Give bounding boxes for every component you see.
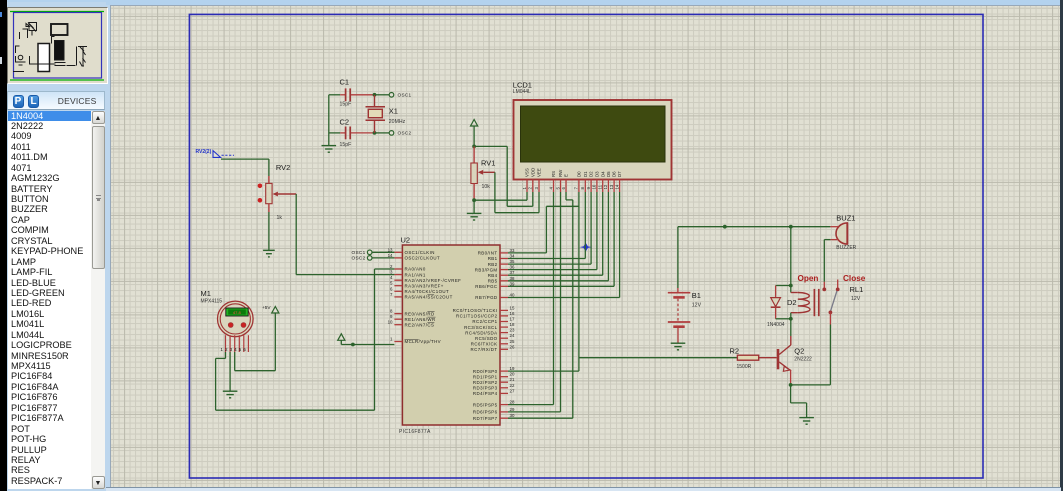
- svg-text:20MHz: 20MHz: [389, 119, 406, 125]
- svg-text:30: 30: [510, 413, 515, 418]
- svg-text:RE1/AN6/WR: RE1/AN6/WR: [405, 317, 436, 322]
- terminal OSC1 (U2): [352, 250, 395, 255]
- svg-text:RC6/TX/CK: RC6/TX/CK: [471, 342, 498, 347]
- wire LCD VSS: [526, 192, 528, 200]
- svg-text:9: 9: [390, 314, 393, 319]
- svg-text:13: 13: [388, 247, 393, 252]
- svg-text:RA5/AN4/SS/C2OUT: RA5/AN4/SS/C2OUT: [405, 295, 453, 300]
- wire emitter to ground: [791, 385, 807, 417]
- svg-text:LM044L: LM044L: [513, 89, 531, 95]
- node rail junction B: [789, 225, 793, 229]
- node emitter junction: [789, 383, 793, 387]
- potentiometer RV2: [258, 163, 297, 221]
- svg-text:RE2/AN7/CS: RE2/AN7/CS: [405, 322, 435, 327]
- ground (RV2): [263, 250, 275, 257]
- svg-text:VEE: VEE: [537, 168, 542, 177]
- wire OSC1 net: [329, 94, 389, 96]
- LCD LM044L body: [514, 100, 672, 180]
- wire RV1 bottom to LCD VSS: [474, 199, 527, 201]
- svg-text:RW: RW: [558, 169, 563, 177]
- LCD pins: [522, 168, 622, 192]
- svg-text:RD3/PSP3: RD3/PSP3: [473, 386, 498, 391]
- svg-text:RB2: RB2: [488, 262, 498, 267]
- wire RV2 top: [221, 159, 269, 183]
- device list: [8, 111, 91, 490]
- svg-text:RC4/SDI/SDA: RC4/SDI/SDA: [465, 330, 497, 335]
- svg-text:6: 6: [561, 187, 566, 190]
- svg-text:3: 3: [390, 270, 393, 275]
- svg-text:D7: D7: [617, 171, 622, 177]
- svg-text:RC0/T1OSO/T1CKI: RC0/T1OSO/T1CKI: [453, 308, 498, 313]
- svg-text:1N4004: 1N4004: [767, 322, 785, 328]
- wire LCD D1 to RB1: [508, 192, 585, 259]
- svg-text:U2: U2: [401, 236, 411, 245]
- svg-text:RA0/AN0: RA0/AN0: [405, 267, 426, 272]
- svg-text:2: 2: [528, 187, 533, 190]
- svg-text:Close: Close: [843, 274, 866, 283]
- svg-text:10: 10: [388, 320, 393, 325]
- svg-text:RD5/PSP5: RD5/PSP5: [473, 402, 498, 407]
- node rail junction A: [723, 225, 727, 229]
- svg-text:1k: 1k: [277, 215, 283, 221]
- svg-text:RD6/PSP6: RD6/PSP6: [473, 410, 498, 415]
- svg-text:15pF: 15pF: [340, 102, 352, 108]
- sheet border: [189, 14, 983, 478]
- svg-text:4: 4: [234, 347, 237, 352]
- wire LCD VDD: [532, 192, 534, 206]
- op-amp U2 body (PIC16F877A): [399, 236, 500, 436]
- wire RD0 to R2: [579, 357, 738, 359]
- svg-text:5: 5: [555, 187, 560, 190]
- LCD screen: [521, 106, 666, 162]
- svg-text:RE0/AN5/RD: RE0/AN5/RD: [405, 311, 435, 316]
- svg-text:16: 16: [510, 311, 515, 316]
- wire RV1 wiper to LCD VEE: [495, 172, 535, 212]
- svg-text:RD7/PSP7: RD7/PSP7: [473, 416, 498, 421]
- svg-text:1: 1: [390, 337, 393, 342]
- preview sheet border: [14, 13, 102, 79]
- svg-text:10: 10: [592, 184, 597, 189]
- wire LCD D0 to RD0: [508, 192, 579, 371]
- svg-text:23: 23: [510, 328, 515, 333]
- wire coil bottom link: [776, 313, 791, 336]
- svg-text:BUZZER: BUZZER: [836, 245, 856, 251]
- svg-text:12: 12: [603, 184, 608, 189]
- wire coil top link: [776, 286, 798, 293]
- svg-text:M1: M1: [201, 289, 211, 298]
- wire LCD RW to RD6: [508, 192, 561, 412]
- svg-text:RD2/PSP2: RD2/PSP2: [473, 380, 498, 385]
- svg-text:14: 14: [388, 253, 393, 258]
- svg-text:24: 24: [510, 333, 515, 338]
- svg-text:OSC2: OSC2: [398, 131, 412, 136]
- node OSC1 junction: [373, 93, 377, 97]
- svg-text:14: 14: [614, 184, 619, 189]
- svg-text:RC7/RX/DT: RC7/RX/DT: [471, 347, 498, 352]
- svg-text:D3: D3: [595, 171, 600, 177]
- wire M1 out to RA0: [216, 269, 395, 410]
- svg-text:2N2222: 2N2222: [794, 356, 812, 362]
- svg-text:D2: D2: [787, 298, 797, 307]
- svg-text:VDD: VDD: [530, 168, 535, 177]
- window left edge: [0, 0, 7, 491]
- U2 left pins: [388, 247, 462, 344]
- M1 pins 1-6: [221, 335, 249, 352]
- buzzer BUZ1: [830, 214, 856, 251]
- svg-text:Open: Open: [798, 274, 819, 283]
- svg-text:28: 28: [510, 400, 515, 405]
- power arrow (MCLR): [338, 334, 345, 341]
- svg-text:37: 37: [510, 270, 515, 275]
- svg-text:11: 11: [598, 184, 603, 189]
- svg-text:5: 5: [239, 347, 242, 352]
- svg-text:21: 21: [510, 377, 515, 382]
- power +5V arrow (RV1): [471, 120, 478, 127]
- svg-text:38: 38: [510, 276, 515, 281]
- svg-text:6: 6: [390, 286, 393, 291]
- svg-text:RD4/PSP4: RD4/PSP4: [473, 391, 498, 396]
- svg-text:+5V: +5V: [262, 305, 271, 310]
- ground (B1): [671, 343, 686, 350]
- svg-text:C2: C2: [340, 118, 350, 127]
- relay switch arm: [830, 291, 837, 312]
- terminal OSC2: [389, 131, 411, 136]
- svg-text:2: 2: [225, 347, 228, 352]
- potentiometer RV1: [471, 146, 496, 200]
- svg-text:12V: 12V: [692, 303, 702, 309]
- svg-text:MCLR/Vpp/THV: MCLR/Vpp/THV: [405, 339, 442, 344]
- relay pivot: [829, 311, 833, 325]
- svg-text:D1: D1: [583, 171, 588, 177]
- svg-text:26: 26: [510, 344, 515, 349]
- wire RB0 link: [508, 206, 579, 253]
- node coil bottom junction: [789, 317, 793, 321]
- svg-text:RB0/INT: RB0/INT: [478, 251, 498, 256]
- node OSC2 junction: [373, 131, 377, 135]
- svg-text:12V: 12V: [851, 296, 861, 302]
- wire LCD D7 to RB7: [508, 192, 620, 298]
- node RV1 top junction: [472, 145, 476, 149]
- crystal X1: [366, 95, 406, 133]
- svg-text:25: 25: [510, 339, 515, 344]
- svg-text:RD0/PSP0: RD0/PSP0: [473, 369, 498, 374]
- svg-text:RL1: RL1: [850, 285, 864, 294]
- svg-text:Q2: Q2: [794, 347, 804, 356]
- svg-text:OSC1/CLKIN: OSC1/CLKIN: [405, 250, 435, 255]
- resistor R2: [730, 347, 759, 371]
- sensor M1 MPX4115: [201, 289, 254, 337]
- wire relay common to emitter: [791, 325, 831, 385]
- wire RV1 top: [473, 126, 475, 146]
- relay RL1 coil: [791, 293, 810, 313]
- svg-text:4: 4: [548, 187, 553, 190]
- svg-text:35: 35: [510, 259, 515, 264]
- wire RV2 bottom: [268, 204, 270, 250]
- svg-text:RD1/PSP1: RD1/PSP1: [473, 374, 498, 379]
- net label RV2(2): [196, 149, 235, 157]
- wire buzzer to relay contact: [824, 240, 830, 282]
- scrollbar: [91, 111, 105, 490]
- capacitor C2: [340, 118, 352, 148]
- top window strip: [7, 0, 1061, 5]
- svg-text:E: E: [564, 174, 569, 177]
- svg-text:5: 5: [390, 281, 393, 286]
- wire +5V to LCD VDD: [474, 146, 529, 206]
- svg-text:RC1/T1OSI/CCP2: RC1/T1OSI/CCP2: [456, 314, 498, 319]
- preview pane: [7, 7, 108, 84]
- relay contact open: [822, 282, 826, 292]
- svg-text:36: 36: [510, 265, 515, 270]
- svg-text:15pF: 15pF: [340, 142, 352, 148]
- svg-text:RB7/PGD: RB7/PGD: [475, 295, 497, 300]
- svg-text:6: 6: [243, 347, 246, 352]
- power +5V arrow (M1): [262, 305, 279, 313]
- preview mini schematic: [13, 23, 87, 72]
- wire LCD D4 to RB4: [508, 192, 603, 275]
- svg-text:8: 8: [580, 187, 585, 190]
- capacitor C1: [340, 78, 352, 108]
- relay RL1 core: [814, 289, 818, 316]
- svg-text:3: 3: [230, 347, 233, 352]
- svg-text:7: 7: [390, 292, 393, 297]
- wire rail to coil top: [790, 227, 792, 286]
- node MCLR junction: [351, 343, 355, 347]
- wire M1 Vs to +5V: [235, 313, 276, 371]
- transistor Q2: [778, 336, 812, 385]
- preview green margin lines: [10, 11, 104, 13]
- svg-text:8: 8: [390, 309, 393, 314]
- svg-text:RV2(2): RV2(2): [196, 149, 212, 155]
- wire RV1 bottom to ground: [473, 200, 475, 213]
- diode D2: [767, 286, 797, 328]
- svg-text:RB1: RB1: [488, 256, 498, 261]
- svg-text:1: 1: [522, 187, 527, 190]
- wire LCD D6 to RB6: [508, 192, 614, 286]
- svg-text:D0: D0: [577, 171, 582, 177]
- svg-text:27: 27: [510, 388, 515, 393]
- svg-text:18: 18: [510, 322, 515, 327]
- svg-text:7: 7: [574, 187, 579, 190]
- wire RV2 wiper to RA1: [296, 194, 394, 275]
- ground (crystal): [322, 146, 337, 153]
- svg-text:OSC1: OSC1: [352, 250, 366, 255]
- svg-text:RC3/SCK/SCL: RC3/SCK/SCL: [464, 325, 498, 330]
- svg-text:40: 40: [510, 293, 515, 298]
- svg-text:1500R: 1500R: [737, 364, 752, 370]
- svg-text:9: 9: [586, 187, 591, 190]
- left panel: [7, 2, 106, 491]
- svg-text:RC2/CCP1: RC2/CCP1: [472, 319, 497, 324]
- svg-text:B1: B1: [692, 291, 701, 300]
- svg-text:D2: D2: [589, 171, 594, 177]
- relay contact close: [836, 280, 840, 292]
- svg-text:3: 3: [534, 187, 539, 190]
- P/L buttons + DEVICES header: [7, 91, 105, 110]
- wire OSC2 net: [329, 132, 389, 134]
- svg-text:RB6/PGC: RB6/PGC: [475, 284, 497, 289]
- wire +12V rail: [678, 227, 831, 288]
- terminal OSC1: [389, 93, 411, 98]
- wire LCD D5 to RB5: [508, 192, 608, 281]
- svg-text:33: 33: [510, 248, 515, 253]
- svg-text:RV1: RV1: [481, 159, 495, 168]
- svg-text:D6: D6: [612, 171, 617, 177]
- wire LCD D3 to RB3: [508, 192, 597, 270]
- svg-text:C1: C1: [340, 78, 350, 87]
- U2 right pins: [453, 248, 515, 421]
- svg-text:10k: 10k: [482, 184, 491, 190]
- svg-text:17: 17: [510, 317, 515, 322]
- svg-text:RA1/AN1: RA1/AN1: [405, 272, 426, 277]
- svg-text:D4: D4: [600, 171, 605, 177]
- wire MCLR: [341, 340, 394, 344]
- window bottom strip: [7, 487, 1061, 491]
- ground (RV1): [467, 213, 482, 220]
- svg-text:RB5: RB5: [488, 279, 498, 284]
- svg-text:R2: R2: [730, 347, 740, 356]
- svg-text:PIC16F877A: PIC16F877A: [399, 429, 431, 435]
- svg-text:1: 1: [221, 347, 224, 352]
- wire LCD D2 to RB2: [508, 192, 591, 264]
- svg-text:2: 2: [390, 264, 393, 269]
- svg-text:29: 29: [510, 407, 515, 412]
- node RV1 bottom junction: [472, 198, 476, 202]
- svg-text:D5: D5: [606, 171, 611, 177]
- svg-text:VSS: VSS: [525, 168, 530, 177]
- svg-text:OSC1: OSC1: [398, 93, 412, 98]
- ground (M1): [223, 391, 238, 398]
- svg-text:RC5/SDO: RC5/SDO: [475, 336, 498, 341]
- ground (Q2): [799, 418, 814, 425]
- svg-text:4: 4: [390, 275, 393, 280]
- svg-text:34: 34: [510, 254, 515, 259]
- battery B1: [668, 288, 702, 343]
- svg-text:RB4: RB4: [488, 273, 498, 278]
- node coil top junction: [789, 284, 793, 288]
- svg-text:47.8: 47.8: [233, 310, 242, 315]
- svg-text:22: 22: [510, 383, 515, 388]
- svg-text:13: 13: [609, 184, 614, 189]
- svg-text:BUZ1: BUZ1: [836, 214, 855, 223]
- wire M1 gnd: [229, 352, 231, 391]
- svg-text:39: 39: [510, 281, 515, 286]
- origin marker: [579, 243, 592, 252]
- terminal OSC2 (U2): [352, 256, 395, 261]
- svg-text:RB3/PGM: RB3/PGM: [475, 267, 498, 272]
- wire LCD RS to RD5: [508, 192, 554, 405]
- svg-text:LCD1: LCD1: [513, 81, 532, 90]
- svg-text:20: 20: [510, 372, 515, 377]
- svg-text:X1: X1: [389, 107, 398, 116]
- wire LCD VEE: [538, 192, 540, 213]
- svg-text:RA2/AN2/VREF-/CVREF: RA2/AN2/VREF-/CVREF: [405, 278, 462, 283]
- svg-text:RS: RS: [551, 171, 556, 177]
- svg-text:OSC2: OSC2: [352, 256, 366, 261]
- svg-text:19: 19: [510, 366, 515, 371]
- svg-text:15: 15: [510, 305, 515, 310]
- wire LCD E to RD7: [508, 192, 573, 418]
- svg-text:MPX4115: MPX4115: [201, 298, 223, 304]
- svg-text:RA4/T0CKI/C1OUT: RA4/T0CKI/C1OUT: [405, 289, 450, 294]
- LCD1 label: [513, 81, 532, 96]
- svg-text:RV2: RV2: [276, 163, 290, 172]
- wire R2 to base: [759, 357, 777, 359]
- window right edge: [1060, 0, 1063, 491]
- svg-text:OSC2/CLKOUT: OSC2/CLKOUT: [405, 256, 441, 261]
- label RL1: [850, 285, 864, 302]
- svg-text:RA3/AN3/VREF+: RA3/AN3/VREF+: [405, 283, 444, 288]
- wire C1/C2 left leg: [328, 95, 330, 145]
